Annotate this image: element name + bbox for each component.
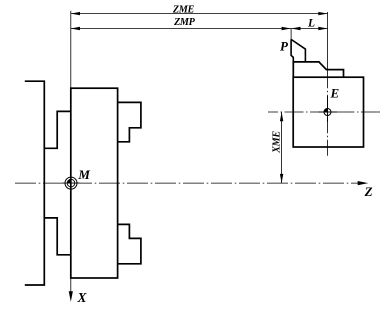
chuck body (71, 88, 118, 278)
dimension XME (281, 112, 283, 183)
X axis line (70, 278, 72, 293)
tool shank (293, 62, 343, 77)
svg-text:ZMP: ZMP (173, 17, 196, 28)
tool insert (291, 39, 305, 62)
svg-text:M: M (77, 167, 90, 182)
svg-text:E: E (329, 86, 339, 101)
top jaw (118, 102, 141, 141)
headstock back plate (25, 81, 45, 285)
bottom jaw (118, 224, 141, 263)
E vertical centerline (327, 77, 329, 158)
svg-text:ZME: ZME (172, 5, 195, 16)
extension line P (290, 29, 292, 40)
svg-text:Z: Z (364, 184, 373, 199)
svg-text:P: P (280, 39, 289, 54)
extension line E (327, 12, 329, 77)
Z axis arrow (358, 182, 361, 184)
svg-text:XME: XME (271, 131, 282, 154)
extension line left (70, 11, 72, 88)
spindle step top (44, 111, 71, 148)
svg-text:X: X (76, 290, 87, 305)
dimension ZME (71, 13, 328, 15)
dimension L (291, 28, 327, 30)
tool reference point E symbol (319, 111, 338, 113)
tool post block (293, 77, 363, 147)
Z axis centerline (15, 182, 360, 184)
E horizontal centerline (268, 111, 380, 113)
svg-text:L: L (307, 18, 315, 30)
machine zero M symbol (63, 182, 80, 184)
dimension ZMP (71, 28, 291, 30)
X axis arrow (69, 291, 73, 302)
spindle step bottom (44, 218, 71, 255)
